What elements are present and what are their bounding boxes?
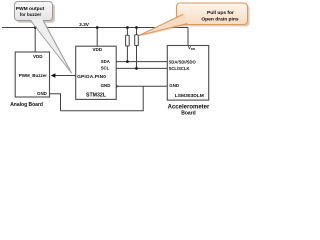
wire bottom GND rail bbox=[61, 110, 144, 112]
svg-text:Pull ups for: Pull ups for bbox=[207, 10, 234, 16]
node junction dot SDA/R1 bbox=[126, 60, 129, 63]
svg-text:Accelerometer: Accelerometer bbox=[168, 104, 210, 110]
node junction dot analog VDD bbox=[34, 26, 37, 29]
wire SDA line bbox=[117, 61, 168, 63]
callout PWM output for buzzer bbox=[17, 4, 55, 23]
node junction dot STM32L VDD bbox=[96, 26, 99, 29]
svg-text:GPIOA.PIN0: GPIOA.PIN0 bbox=[77, 74, 106, 80]
svg-text:STM32L: STM32L bbox=[86, 93, 107, 99]
svg-text:PWM output: PWM output bbox=[16, 6, 45, 12]
callout tail (Pull ups) bbox=[139, 14, 188, 35]
wire 3.3V power rail bbox=[2, 27, 188, 29]
svg-text:VDD: VDD bbox=[33, 54, 43, 59]
resistor R2 pull-up bbox=[135, 35, 139, 46]
resistor R1 pull-up bbox=[126, 35, 130, 46]
wire VDD drop to STM32L bbox=[96, 28, 98, 47]
callout Pull ups for Open drain pins bbox=[179, 5, 250, 27]
callout tail (PWM output for buzzer) bbox=[31, 19, 72, 73]
block STM32L box bbox=[76, 46, 117, 99]
svg-text:VDD: VDD bbox=[188, 45, 196, 51]
wire GND drop to bottom rail bbox=[142, 86, 144, 111]
svg-text:PWM_Buzzer: PWM_Buzzer bbox=[19, 73, 48, 78]
svg-text:Board: Board bbox=[181, 111, 195, 117]
node junction dot GPIOA pin bbox=[75, 74, 78, 77]
node junction dot STM32L GND pin bbox=[115, 85, 118, 88]
svg-text:Open drain pins: Open drain pins bbox=[201, 17, 239, 23]
svg-text:LSM303DLM: LSM303DLM bbox=[175, 93, 204, 99]
block LSM303DLM box bbox=[167, 46, 208, 101]
svg-text:SCL: SCL bbox=[101, 66, 110, 71]
svg-text:Analog Board: Analog Board bbox=[10, 102, 43, 108]
svg-text:for buzzer: for buzzer bbox=[20, 12, 42, 17]
wire Analog GND stub bbox=[50, 94, 61, 111]
wire GND line STM32L to LSM303DLM bbox=[116, 85, 167, 87]
wire VDD drop to Analog Board bbox=[34, 28, 36, 53]
wire pull-up lead R1 bbox=[126, 28, 128, 62]
svg-text:GND: GND bbox=[37, 91, 47, 96]
wire GPIOA.PIN0 to PWM_Buzzer bbox=[55, 75, 76, 77]
node junction dot SCL/R2 bbox=[135, 67, 138, 70]
wire SCL line bbox=[117, 67, 168, 69]
wire pull-up lead R2 bbox=[136, 28, 138, 69]
svg-text:SDA/SDI/SDO: SDA/SDI/SDO bbox=[169, 59, 197, 64]
svg-text:SCL/SCLK: SCL/SCLK bbox=[169, 66, 190, 71]
svg-text:GND: GND bbox=[169, 83, 179, 88]
svg-text:3.3V: 3.3V bbox=[79, 22, 90, 28]
block Analog Board box bbox=[15, 52, 49, 97]
node arrowhead into PWM_Buzzer bbox=[51, 73, 56, 77]
svg-text:GND: GND bbox=[101, 83, 111, 88]
svg-text:SDA: SDA bbox=[101, 59, 110, 64]
node junction dot R2 top bbox=[135, 26, 138, 29]
node junction dot R1 top bbox=[126, 26, 129, 29]
wire VDD drop to LSM303DLM bbox=[187, 28, 189, 46]
svg-text:VDD: VDD bbox=[92, 47, 102, 52]
